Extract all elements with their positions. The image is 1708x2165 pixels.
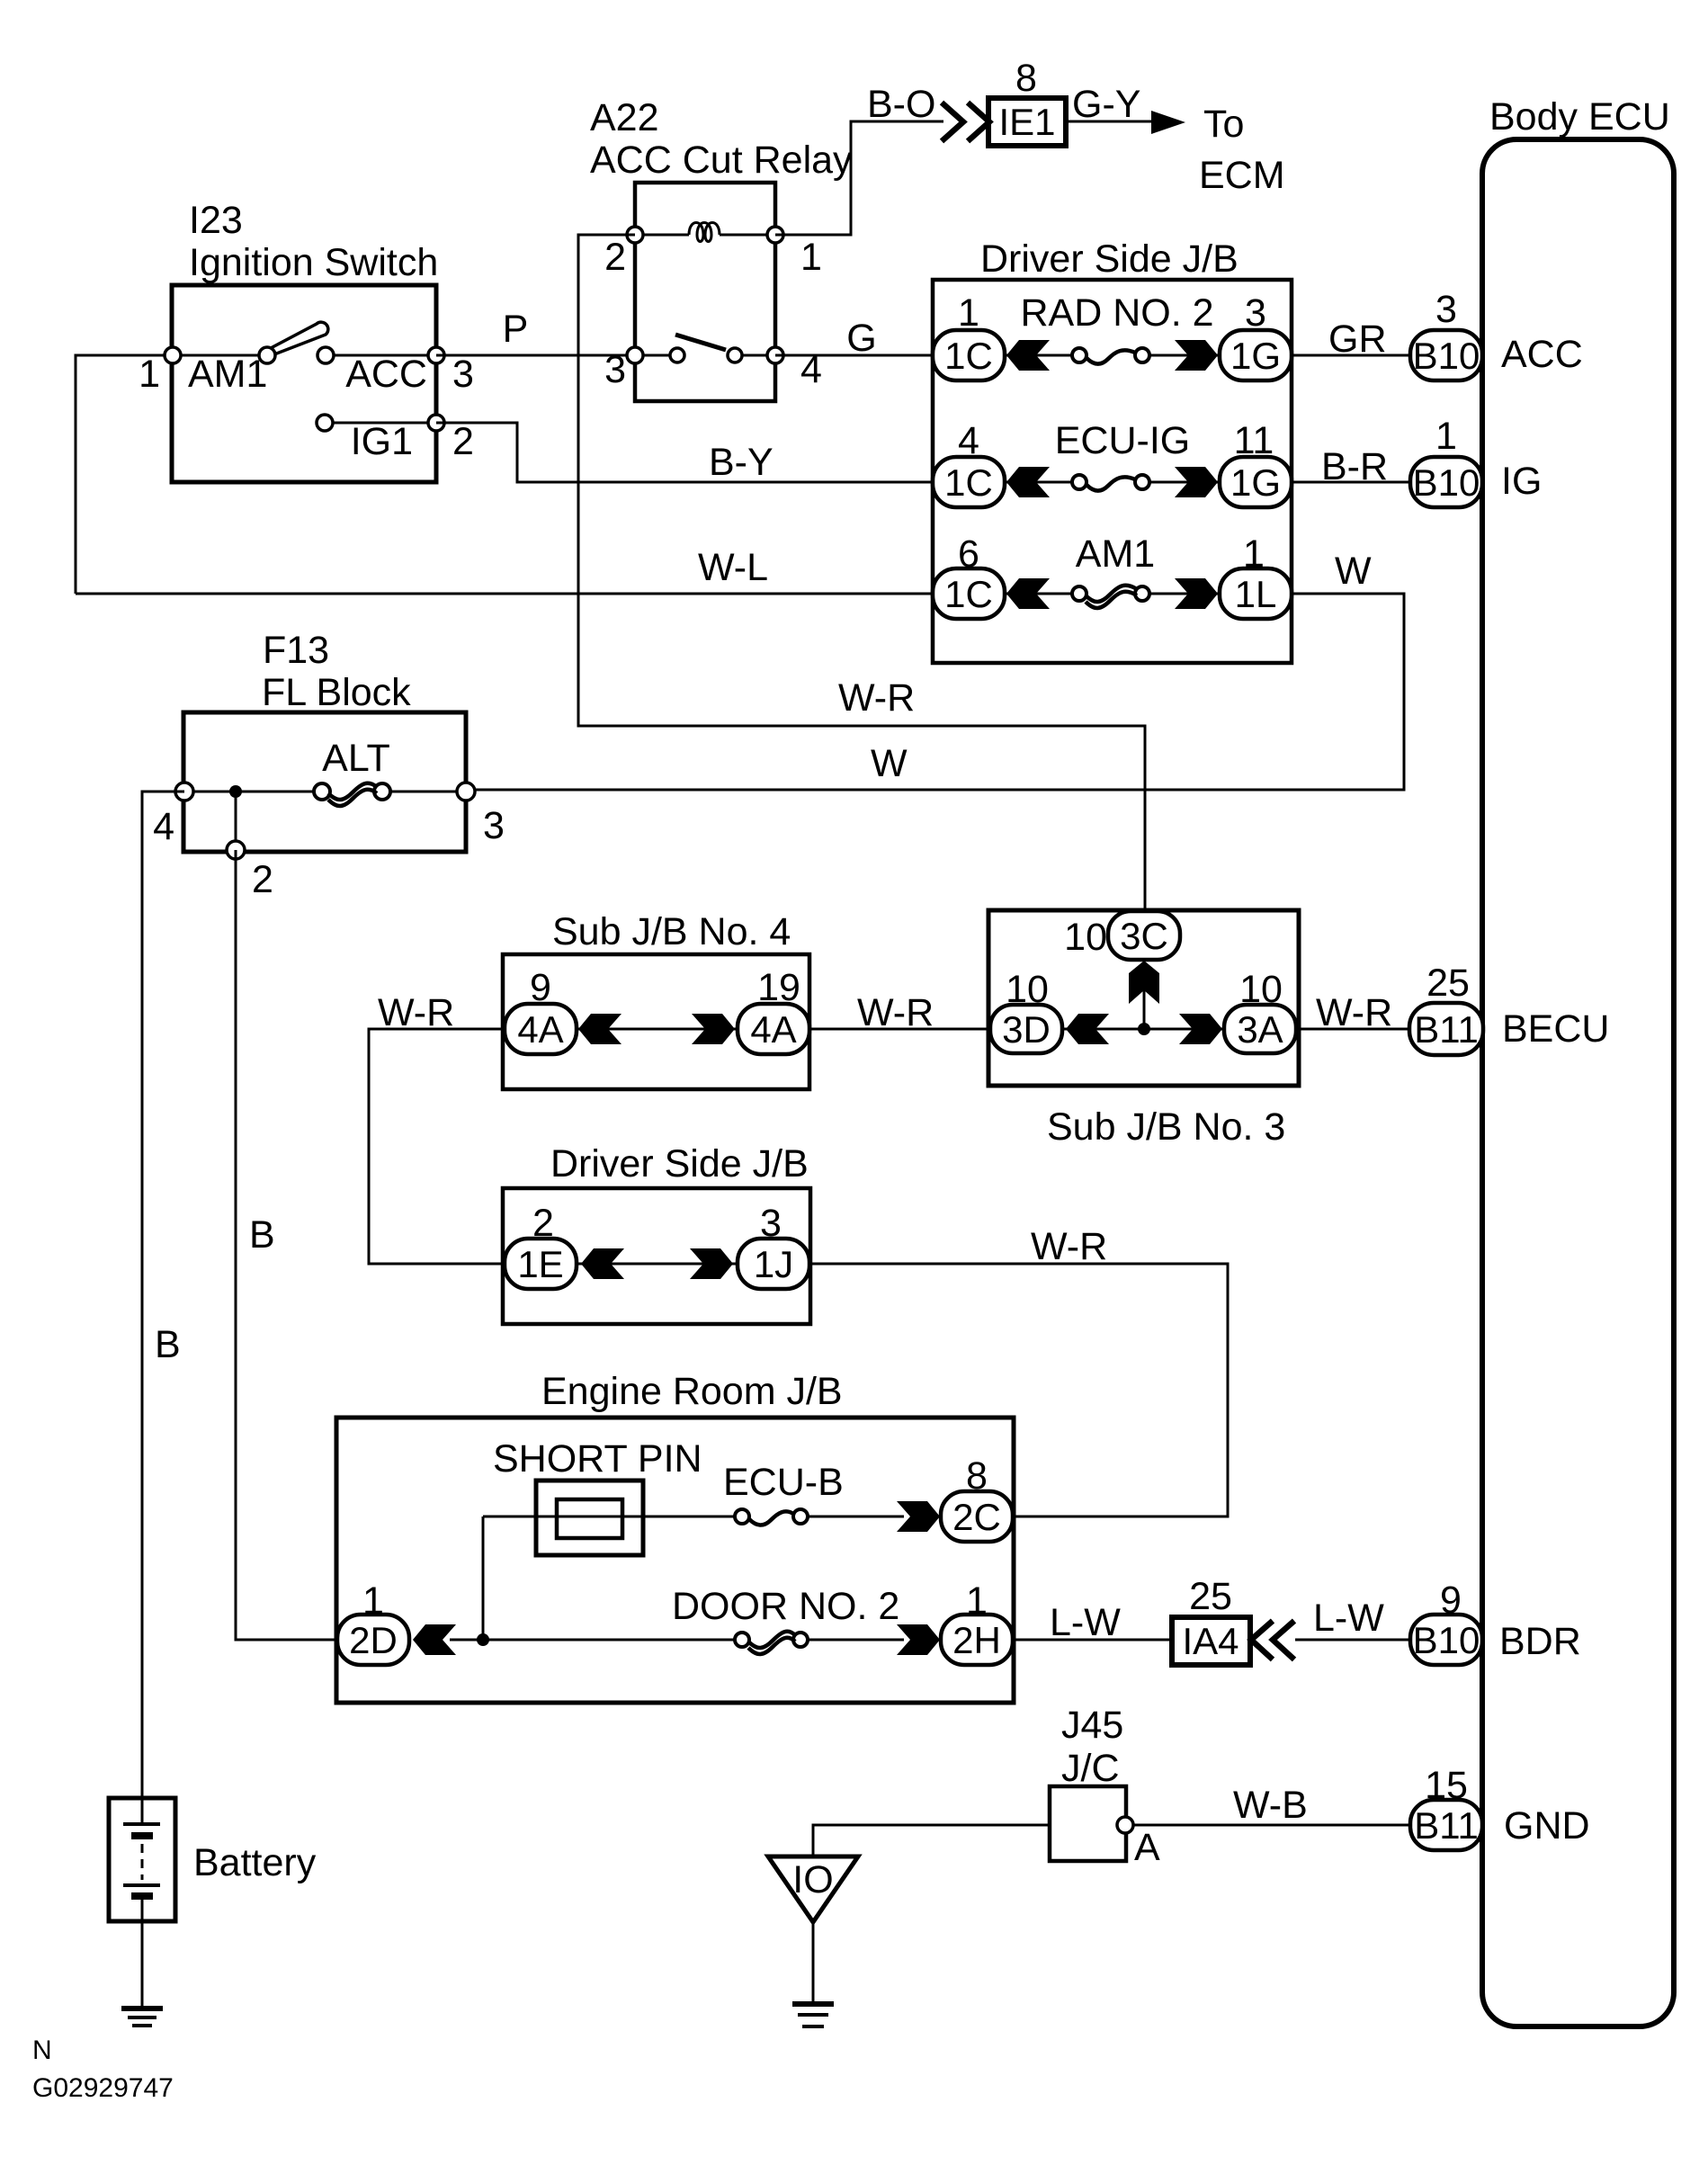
wire W-R from 1E riser to 4A pin9	[369, 1029, 505, 1264]
wire ALT row	[184, 791, 466, 793]
relay pin 4	[767, 347, 783, 363]
wire ECU-B row	[483, 1516, 904, 1518]
oval 2H	[941, 1579, 1013, 1665]
oval 3A	[1224, 968, 1296, 1053]
svg-text:2H: 2H	[952, 1619, 1001, 1661]
oval B11 BECU	[1409, 962, 1483, 1055]
wire B-R to B10	[1292, 481, 1412, 484]
relay lever	[675, 335, 726, 350]
ignition ACC contact	[317, 347, 334, 363]
svg-text:B-R: B-R	[1321, 445, 1388, 488]
svg-text:2C: 2C	[952, 1496, 1001, 1538]
svg-text:1: 1	[800, 236, 822, 279]
ignition switch I23 label	[189, 199, 438, 284]
svg-text:ECU-IG: ECU-IG	[1055, 419, 1191, 462]
svg-text:3A: 3A	[1237, 1008, 1283, 1051]
svg-text:L-W: L-W	[1050, 1601, 1121, 1644]
svg-text:Ignition Switch: Ignition Switch	[189, 241, 438, 284]
ignition pin labels	[139, 353, 474, 463]
svg-text:W-R: W-R	[838, 676, 915, 720]
svg-text:1L: 1L	[1235, 573, 1277, 615]
oval 4A pin19	[738, 966, 809, 1054]
svg-text:W-L: W-L	[698, 546, 768, 589]
Sub4 internal wire	[577, 1028, 738, 1031]
svg-text:IE1: IE1	[998, 101, 1055, 143]
svg-text:Engine Room J/B: Engine Room J/B	[541, 1370, 843, 1413]
svg-text:W-B: W-B	[1233, 1784, 1308, 1827]
relay pin 2	[627, 227, 643, 243]
svg-text:Sub J/B No. 3: Sub J/B No. 3	[1047, 1105, 1285, 1149]
Engine Room J/B box	[336, 1418, 1014, 1703]
svg-text:I23: I23	[189, 199, 243, 242]
wire W-B J/C to B11	[1126, 1824, 1412, 1827]
svg-text:FL Block: FL Block	[262, 671, 411, 714]
oval B11 GND	[1410, 1764, 1482, 1850]
ignition switch I23 box	[172, 285, 436, 482]
svg-text:RAD NO. 2: RAD NO. 2	[1020, 291, 1213, 335]
svg-text:ECM: ECM	[1199, 154, 1285, 197]
svg-text:J/C: J/C	[1061, 1747, 1120, 1790]
label ECU-IG and pins	[958, 419, 1274, 462]
label To ECM	[1199, 103, 1285, 197]
fuse ALT (double wave)	[314, 783, 390, 806]
wire W-R Sub3 to B11	[1296, 1028, 1412, 1031]
relay pin 1	[767, 227, 783, 243]
ignition pin 3	[428, 347, 444, 363]
relay pin 3	[627, 347, 643, 363]
Driver Side J/B box (top)	[933, 280, 1292, 663]
ground symbol (IO)	[792, 2004, 834, 2026]
svg-text:3: 3	[452, 353, 474, 396]
svg-text:W: W	[1335, 550, 1372, 593]
wire relay switch row	[635, 354, 775, 357]
svg-text:G-Y: G-Y	[1072, 83, 1140, 126]
svg-text:BECU: BECU	[1502, 1007, 1609, 1051]
svg-text:3: 3	[604, 348, 626, 391]
wire L-W to IA4	[1014, 1639, 1172, 1642]
svg-text:1: 1	[139, 353, 160, 396]
chevrons >> before IE1	[942, 103, 989, 141]
oval 2C	[941, 1454, 1013, 1542]
svg-text:2: 2	[604, 236, 626, 279]
arrow right to 2C	[897, 1501, 940, 1532]
svg-text:IG: IG	[1501, 460, 1542, 503]
wire AM1 feed (left vertical to W-L)	[76, 355, 173, 594]
arrow left row3	[1006, 578, 1050, 609]
wire W-R Sub4 to Sub3	[809, 1028, 990, 1031]
svg-text:AM1: AM1	[188, 353, 267, 396]
svg-text:25: 25	[1426, 962, 1470, 1005]
svg-text:BDR: BDR	[1499, 1620, 1581, 1663]
wire B: FL pin2 down to 2D	[236, 850, 342, 1640]
svg-text:W-R: W-R	[1031, 1225, 1107, 1268]
Sub3 arrow up	[1129, 961, 1159, 1004]
ignition IG1 contact	[317, 415, 333, 431]
svg-text:W-R: W-R	[378, 991, 454, 1034]
wire B: FL pin4 to battery	[142, 792, 184, 1798]
svg-text:DOOR NO. 2: DOOR NO. 2	[672, 1585, 899, 1628]
fuse DOOR NO.2 (double wave)	[735, 1632, 808, 1654]
ground symbol (battery)	[121, 2008, 163, 2026]
Body ECU outline	[1482, 139, 1674, 2026]
ignition pin 2	[428, 415, 444, 431]
oval 3C	[1064, 911, 1180, 960]
wire P: ignition pin3 to relay pin3	[436, 354, 635, 357]
Sub3 internal wires	[1063, 962, 1224, 1029]
svg-text:ALT: ALT	[322, 737, 390, 780]
svg-text:1C: 1C	[944, 335, 993, 377]
svg-text:W-R: W-R	[857, 991, 934, 1034]
svg-text:ACC: ACC	[345, 353, 427, 396]
FL block box	[183, 712, 466, 852]
svg-text:8: 8	[1015, 57, 1037, 100]
label AM1 and pins	[958, 532, 1265, 576]
fuse RAD NO. 2	[1072, 348, 1149, 364]
wire AM1 contact row inside switch	[173, 354, 436, 357]
chevrons << after IA4	[1251, 1621, 1294, 1660]
svg-text:3: 3	[1435, 288, 1457, 331]
FL block F13 label	[262, 629, 411, 714]
wire from dot to FL pin2	[235, 792, 237, 850]
row AM1 internal wire	[1005, 593, 1220, 595]
connector IA4 box	[1172, 1617, 1250, 1665]
row RAD NO.2 internal wire	[1005, 354, 1220, 357]
svg-text:GR: GR	[1328, 318, 1387, 361]
wire G: relay pin4 to 1C pin1	[775, 354, 935, 357]
svg-text:B-O: B-O	[867, 83, 935, 126]
wire battery to ground	[141, 1921, 144, 2008]
wire G-Y from IE1	[1066, 121, 1153, 123]
FL junction dot	[229, 785, 242, 798]
battery box	[109, 1798, 175, 1921]
svg-text:SHORT PIN: SHORT PIN	[493, 1437, 702, 1481]
short pin outer box	[536, 1481, 643, 1555]
svg-text:3D: 3D	[1002, 1008, 1051, 1051]
oval 1J	[738, 1202, 809, 1289]
FL pin 3	[457, 783, 475, 801]
svg-text:IO: IO	[792, 1858, 833, 1901]
svg-text:4A: 4A	[750, 1008, 796, 1051]
svg-text:B11: B11	[1414, 1804, 1479, 1847]
svg-text:N: N	[32, 2035, 52, 2065]
oval 1C row3	[933, 568, 1005, 619]
svg-text:Body ECU: Body ECU	[1489, 95, 1670, 139]
svg-text:A: A	[1134, 1826, 1160, 1869]
Sub3 arrow left	[1066, 1014, 1109, 1044]
svg-text:W-R: W-R	[1316, 991, 1392, 1034]
oval 1C row2	[933, 457, 1005, 507]
row ECU-IG internal wire	[1005, 481, 1220, 484]
wire B-Y: ignition pin2 to 1C pin 4	[436, 423, 935, 482]
fuse ECU-IG	[1072, 475, 1149, 491]
Sub3 arrow right	[1179, 1014, 1222, 1044]
svg-text:Driver Side J/B: Driver Side J/B	[980, 237, 1239, 281]
oval B10 BDR	[1410, 1579, 1482, 1665]
short pin inner box	[557, 1499, 622, 1538]
svg-text:B10: B10	[1413, 461, 1480, 504]
oval B10 IG	[1410, 415, 1482, 507]
wire relay coil row	[635, 234, 775, 237]
svg-text:2: 2	[452, 420, 474, 463]
wire W-R 1J to 2C	[810, 1264, 1228, 1516]
relay pin labels	[604, 236, 822, 391]
svg-text:1C: 1C	[944, 461, 993, 504]
svg-text:4: 4	[153, 805, 174, 848]
svg-text:IA4: IA4	[1182, 1620, 1239, 1662]
svg-text:IG1: IG1	[351, 420, 413, 463]
svg-text:2: 2	[252, 858, 273, 901]
relay contact circles	[670, 348, 684, 362]
wire IO to ground	[812, 1922, 815, 2004]
wire W-L to 1C pin 6	[76, 593, 935, 595]
svg-text:B10: B10	[1413, 1619, 1480, 1661]
label J45 J/C	[1061, 1704, 1123, 1790]
arrow right to 2H	[897, 1624, 940, 1655]
svg-text:1G: 1G	[1230, 335, 1281, 377]
svg-text:B10: B10	[1413, 335, 1480, 377]
ground IO triangle	[768, 1856, 858, 1922]
wire DOOR row	[450, 1639, 904, 1642]
svg-text:B: B	[249, 1213, 275, 1257]
wire W-R: relay pin2 down to 3C	[578, 235, 1145, 912]
fuse AM1 (double wave)	[1072, 586, 1149, 608]
svg-text:B11: B11	[1414, 1008, 1479, 1051]
svg-text:Sub J/B No. 4: Sub J/B No. 4	[552, 910, 791, 953]
wire GR to B10	[1292, 354, 1412, 357]
svg-text:L-W: L-W	[1313, 1597, 1384, 1640]
lower JB arrow left	[581, 1248, 624, 1279]
svg-text:3: 3	[483, 804, 505, 847]
wire from IO to J/C	[813, 1825, 1050, 1856]
ignition switch lever	[271, 322, 328, 354]
wire B-O: relay pin1 up to IE1	[775, 121, 943, 235]
oval 1L row3	[1220, 568, 1292, 619]
oval 3D	[990, 968, 1062, 1053]
Sub J/B No. 4 box	[503, 954, 809, 1089]
wire L-W to B10 BDR	[1295, 1639, 1412, 1642]
svg-text:G: G	[846, 317, 876, 360]
FL pin 2	[227, 841, 245, 859]
fuse ECU-B	[735, 1509, 808, 1525]
oval 2D	[337, 1579, 409, 1665]
oval 1G row1	[1220, 330, 1292, 380]
svg-text:F13: F13	[263, 629, 329, 672]
svg-text:1C: 1C	[944, 573, 993, 615]
wire IG1 contact row inside switch	[325, 422, 436, 425]
arrow left at 2D	[413, 1624, 456, 1655]
oval 1E	[505, 1202, 577, 1289]
junction connector J45 box	[1050, 1786, 1126, 1861]
oval 1G row2	[1220, 457, 1292, 507]
ignition pin 1	[165, 347, 181, 363]
oval B10 ACC	[1410, 288, 1482, 380]
arrow left row2	[1006, 467, 1050, 497]
Sub4 arrow right	[692, 1014, 735, 1044]
svg-text:2D: 2D	[349, 1619, 398, 1661]
svg-text:A22: A22	[590, 96, 659, 139]
FL pin labels	[153, 804, 505, 901]
svg-text:W: W	[871, 742, 908, 785]
FL pin 4	[175, 783, 193, 801]
svg-text:Driver Side J/B: Driver Side J/B	[550, 1142, 809, 1185]
Sub J/B No. 3 box	[988, 910, 1299, 1086]
arrow right row3	[1175, 578, 1218, 609]
J/C terminal circle	[1117, 1817, 1133, 1833]
arrow left row1	[1006, 340, 1050, 371]
arrow right row2	[1175, 467, 1218, 497]
Driver Side J/B box (lower)	[503, 1188, 810, 1324]
svg-text:G02929747: G02929747	[32, 2073, 174, 2103]
relay A22 label	[590, 96, 853, 182]
svg-text:P: P	[503, 308, 529, 351]
svg-text:J45: J45	[1061, 1704, 1123, 1747]
svg-text:1G: 1G	[1230, 461, 1281, 504]
label RAD NO. 2 and pins	[958, 291, 1266, 335]
Sub4 arrow left	[578, 1014, 621, 1044]
wire short pin riser	[482, 1516, 485, 1640]
svg-text:ACC: ACC	[1501, 333, 1583, 376]
svg-text:1E: 1E	[517, 1243, 563, 1285]
svg-text:ACC Cut Relay: ACC Cut Relay	[590, 139, 853, 182]
relay coil	[689, 223, 720, 242]
wire W from 1L to FL pin3	[466, 594, 1404, 790]
oval 4A pin9	[505, 966, 577, 1054]
oval 1C row1	[933, 330, 1005, 380]
connector IE1 box	[988, 98, 1066, 146]
svg-text:10: 10	[1064, 916, 1107, 959]
svg-text:4A: 4A	[517, 1008, 563, 1051]
svg-text:AM1: AM1	[1076, 532, 1155, 576]
arrow right row1	[1175, 340, 1218, 371]
ignition AM1 contact	[259, 347, 275, 363]
lower JB internal wire	[577, 1263, 738, 1266]
lower JB arrow right	[690, 1248, 733, 1279]
svg-text:25: 25	[1189, 1575, 1232, 1618]
svg-text:B: B	[155, 1323, 181, 1366]
svg-text:3C: 3C	[1120, 915, 1168, 957]
battery internals	[123, 1798, 160, 1921]
svg-text:B-Y: B-Y	[709, 441, 774, 484]
junction dot DOOR row	[477, 1633, 489, 1646]
svg-text:1J: 1J	[754, 1243, 793, 1285]
svg-text:To: To	[1203, 103, 1244, 146]
svg-text:ECU-B: ECU-B	[723, 1461, 844, 1504]
Sub3 junction dot	[1138, 1023, 1150, 1035]
relay A22 box	[635, 183, 775, 401]
svg-text:GND: GND	[1504, 1804, 1590, 1847]
arrow to ECM	[1151, 111, 1185, 134]
svg-text:Battery: Battery	[193, 1841, 317, 1884]
svg-text:1: 1	[1435, 415, 1457, 458]
